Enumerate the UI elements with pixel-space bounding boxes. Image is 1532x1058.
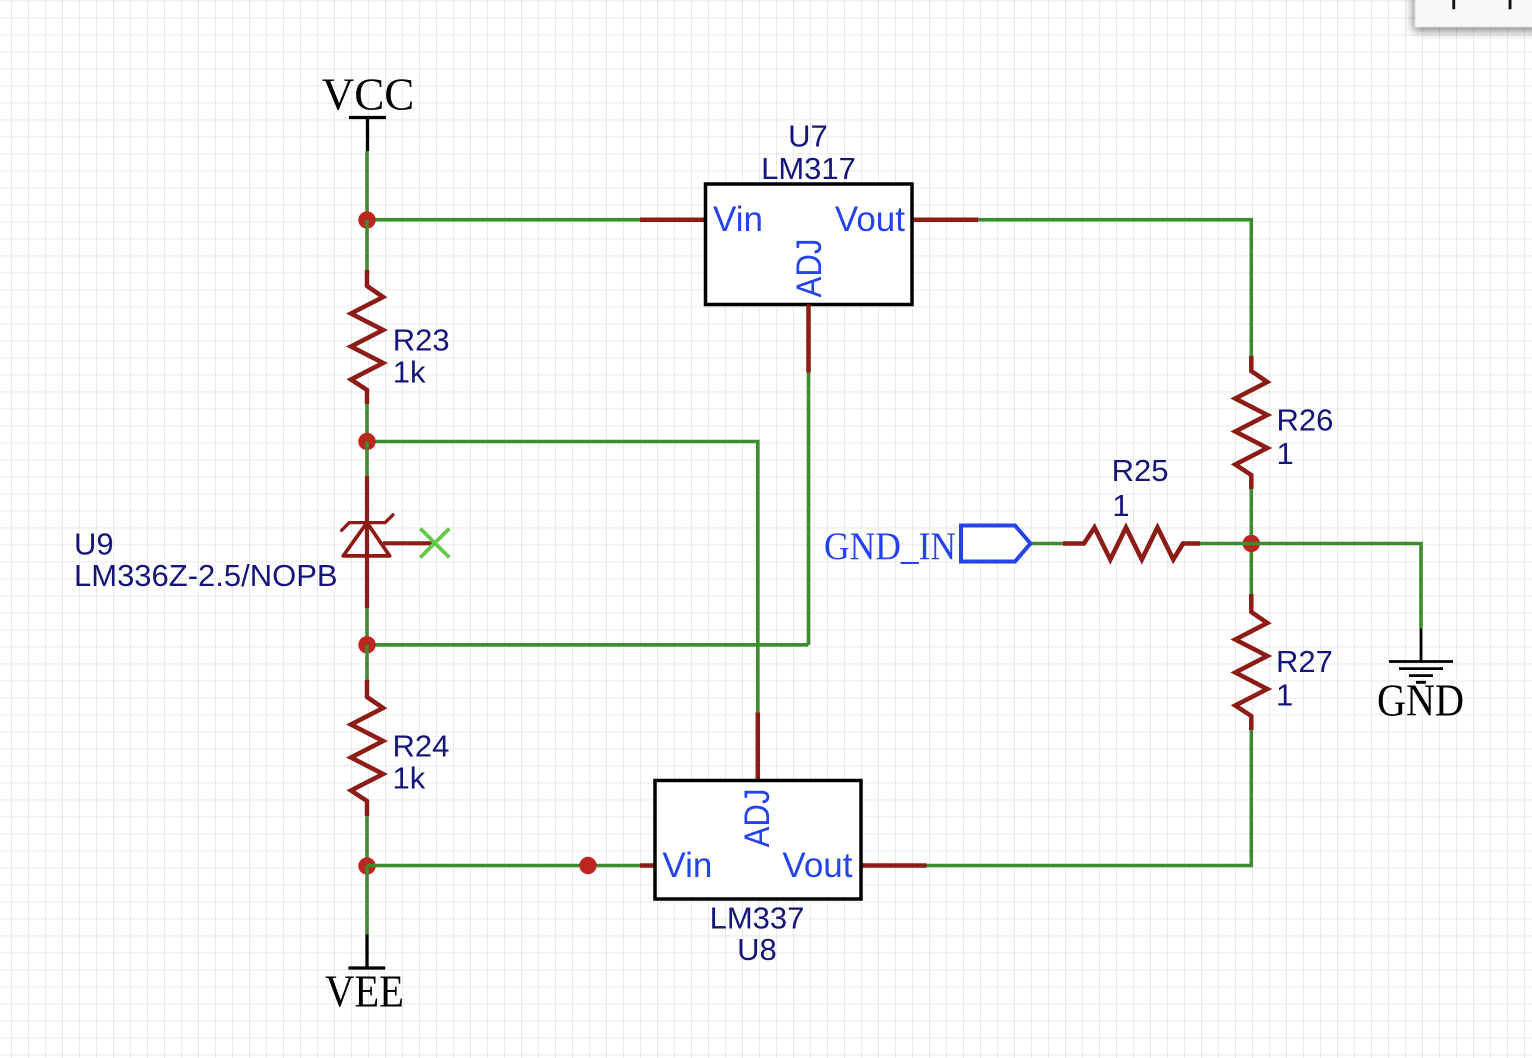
floating panel top-right bbox=[1415, 0, 1532, 27]
regulator U8 LM337 body bbox=[655, 781, 861, 900]
svg-text:LM337: LM337 bbox=[710, 900, 805, 935]
junction node VCC/R23/U7 bbox=[358, 211, 375, 228]
resistor R27 bbox=[1235, 544, 1267, 731]
wire U8 Vout to R27 bbox=[927, 730, 1252, 866]
svg-text:1: 1 bbox=[1277, 436, 1294, 471]
svg-text:R25: R25 bbox=[1112, 453, 1169, 488]
svg-text:GND: GND bbox=[1377, 676, 1464, 726]
junction node R26/R27/R25/GND bbox=[1243, 535, 1260, 552]
pin Vout of U7 bbox=[912, 217, 978, 222]
junction node R24/zener/U7 ADJ bbox=[358, 636, 375, 653]
resistor R23 bbox=[351, 220, 383, 442]
svg-text:1: 1 bbox=[1276, 678, 1293, 713]
svg-text:R23: R23 bbox=[393, 323, 450, 358]
junction node on U8 Vin wire bbox=[579, 857, 596, 874]
svg-text:ADJ: ADJ bbox=[790, 239, 829, 298]
pin Vin of U8 bbox=[640, 863, 655, 868]
svg-text:R26: R26 bbox=[1277, 403, 1334, 438]
svg-text:ADJ: ADJ bbox=[738, 788, 777, 847]
resistor R24 bbox=[351, 645, 383, 866]
svg-text:Vout: Vout bbox=[835, 200, 905, 239]
pin ADJ of U8 bbox=[756, 713, 761, 781]
svg-text:U7: U7 bbox=[788, 119, 828, 154]
wire junction to U8 Vin bbox=[367, 864, 640, 868]
port GND_IN bbox=[824, 525, 1031, 568]
svg-text:VEE: VEE bbox=[325, 967, 404, 1017]
resistor R26 bbox=[1235, 356, 1267, 544]
wire VCC to junction bbox=[365, 151, 369, 220]
pin Vin of U7 bbox=[640, 217, 706, 222]
pin Vout of U8 bbox=[861, 863, 927, 868]
svg-text:Vin: Vin bbox=[713, 200, 763, 239]
wire junction to U7 Vin bbox=[367, 218, 640, 222]
svg-text:1k: 1k bbox=[393, 355, 426, 390]
svg-text:LM317: LM317 bbox=[761, 151, 856, 186]
svg-text:R27: R27 bbox=[1276, 644, 1333, 679]
svg-text:U8: U8 bbox=[737, 932, 777, 967]
power symbol VCC bbox=[322, 70, 415, 152]
pin ADJ of U7 bbox=[806, 305, 811, 373]
no-connect X on U9 ADJ bbox=[420, 529, 449, 558]
svg-text:U9: U9 bbox=[74, 527, 114, 562]
junction node R24/VEE/U8 Vin bbox=[358, 857, 375, 874]
svg-text:VCC: VCC bbox=[322, 70, 415, 120]
wire U7 ADJ down bbox=[807, 373, 811, 645]
wire U7 Vout to R26 bbox=[978, 220, 1251, 356]
svg-text:1: 1 bbox=[1112, 488, 1129, 523]
svg-text:Vin: Vin bbox=[662, 846, 712, 885]
svg-text:Vout: Vout bbox=[782, 846, 852, 885]
resistor R25 bbox=[1031, 528, 1252, 560]
svg-text:GND_IN: GND_IN bbox=[824, 525, 956, 568]
svg-text:LM336Z-2.5/NOPB: LM336Z-2.5/NOPB bbox=[74, 558, 338, 593]
wire upper divider node to U8 ADJ bbox=[367, 442, 758, 713]
svg-text:1k: 1k bbox=[393, 761, 426, 796]
wire lower divider node to U7 ADJ bbox=[367, 643, 809, 647]
power symbol VEE bbox=[325, 866, 404, 1017]
svg-text:R24: R24 bbox=[393, 729, 450, 764]
zener U9 LM336 bbox=[342, 442, 433, 645]
ground GND bbox=[1377, 628, 1464, 725]
wire junction to GND bbox=[1251, 544, 1421, 629]
junction node R23/zener/U8 ADJ bbox=[358, 433, 375, 450]
regulator U7 LM317 body bbox=[706, 184, 913, 305]
